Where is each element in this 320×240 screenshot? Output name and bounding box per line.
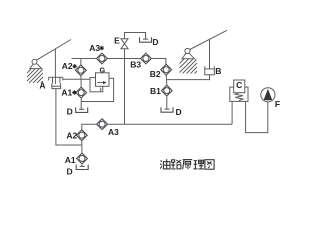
coupler A3* [97,53,108,64]
title char 原 [183,160,193,170]
wire: E up and over to top drain D [125,33,146,40]
wire: branch to cylinder B [166,75,209,80]
svg-text:A3: A3 [108,127,119,137]
svg-text:A: A [39,81,45,91]
title char 图 [205,160,214,170]
valve G inner box [96,73,110,87]
svg-text:A2: A2 [66,131,77,141]
pump F triangle [264,89,273,101]
title char 油 [160,159,170,169]
title char 理 [193,160,204,169]
svg-text:A2: A2 [62,61,73,71]
right lever arm [190,30,227,49]
drain coupling D (below A1*) [76,107,88,112]
wire: A3 corner down to A2 [82,124,97,130]
svg-text:A1: A1 [61,87,72,97]
svg-text:A3: A3 [89,43,100,53]
left lever hatching (ground) [27,69,43,83]
pump F circle [261,88,275,102]
wire: B1 down to drain D [166,96,168,110]
svg-text:D: D [176,107,182,117]
coupler B2 [161,64,172,75]
coupler B3 [141,53,152,64]
svg-text:D: D [152,37,158,47]
coupler A1 (bottom) [77,153,88,164]
svg-text:B1: B1 [150,86,161,96]
accumulator C inner box [234,80,245,93]
svg-text:E: E [114,35,120,45]
coupler A2* [76,65,87,76]
wire: B2 down to B1 [165,75,168,85]
wire: A2* to A1* [80,76,82,88]
wire: C right leg down and to pump F [246,101,268,132]
left lever arm [36,40,71,61]
wire: valve A to valve G [63,78,90,80]
wire: A2 down to A1 [81,141,83,154]
wire: A3* to B3 [107,58,140,60]
svg-text:G: G [100,65,106,74]
shutoff valve E [121,39,128,49]
coupler B1 [161,85,172,96]
drain coupling D (below B1) [161,107,173,112]
drain coupling D (top, right of E) [140,37,152,42]
wire: C left leg to return line [231,101,233,124]
wire: A1* down to drain D [80,98,82,110]
svg-text:B2: B2 [150,69,161,79]
coupler A1* [76,87,87,98]
drain coupling D (bottom) [76,165,88,170]
right lever hatching (ground) [180,59,198,74]
right lever pivot circle [185,48,190,53]
valve A body [49,77,63,88]
svg-text:A1: A1 [65,155,76,165]
wire: E valve down to bottom line [124,49,126,124]
svg-text:F: F [275,99,280,109]
title char 路 [171,160,181,169]
svg-text:D: D [66,167,72,177]
left pedal rod into valve A [54,49,56,84]
wire: branch down to A2* [80,59,82,66]
right lever fulcrum triangle [182,53,195,59]
coupler A3 (bottom) [97,119,108,130]
accumulator C outer box [230,87,248,101]
svg-text:B3: B3 [130,59,141,69]
svg-text:B: B [215,66,221,76]
coupler A2 (bottom) [76,130,87,141]
cylinder B body [205,66,215,75]
svg-text:C: C [236,80,242,90]
left lever pivot circle [32,59,37,64]
cylinder B plunger rod [209,39,211,69]
wire: valve A drain stem down and right [56,89,82,145]
valve G spring tick [100,88,102,92]
valve G outer box [90,78,103,92]
wire: bottom return line [107,123,232,125]
wire: B3 to corner, down to B2 [151,59,166,65]
wire: upper supply line [72,58,97,60]
accumulator C spring [235,93,243,101]
wire: A1 down to drain D [81,164,83,167]
wire: G return loop [81,78,113,101]
valve G flow arrow [97,81,106,84]
left lever fulcrum triangle [30,64,42,69]
title 油路原理图 (hand-drawn strokes, Liberation has no CJK) [160,159,214,169]
svg-text:D: D [67,107,73,117]
